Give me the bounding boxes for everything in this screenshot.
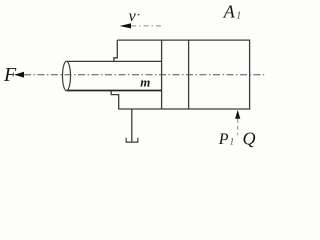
- velocity v arrowhead: [120, 23, 132, 28]
- cylinder body outline: [111, 40, 249, 109]
- speck after v: [138, 14, 140, 16]
- svg-text:m: m: [140, 75, 150, 90]
- svg-text:Q: Q: [243, 128, 256, 148]
- piston left face: [161, 40, 163, 109]
- svg-text:P1: P1: [218, 131, 234, 148]
- centerline (dash-dot axis): [24, 74, 264, 76]
- support bracket (ground mount): [126, 138, 138, 142]
- velocity v dashed line: [131, 25, 164, 27]
- svg-text:v: v: [129, 8, 137, 25]
- piston rod bottom line: [67, 90, 162, 92]
- piston rod top line: [67, 60, 162, 62]
- force F arrowhead: [14, 72, 24, 78]
- rod end ellipse: [63, 61, 71, 90]
- svg-text:A1: A1: [223, 2, 242, 22]
- inlet flow arrowhead: [235, 110, 240, 119]
- support leg line: [131, 109, 133, 142]
- svg-text:F: F: [3, 64, 17, 86]
- piston right face: [188, 40, 190, 109]
- inlet flow dashed stem: [237, 119, 239, 136]
